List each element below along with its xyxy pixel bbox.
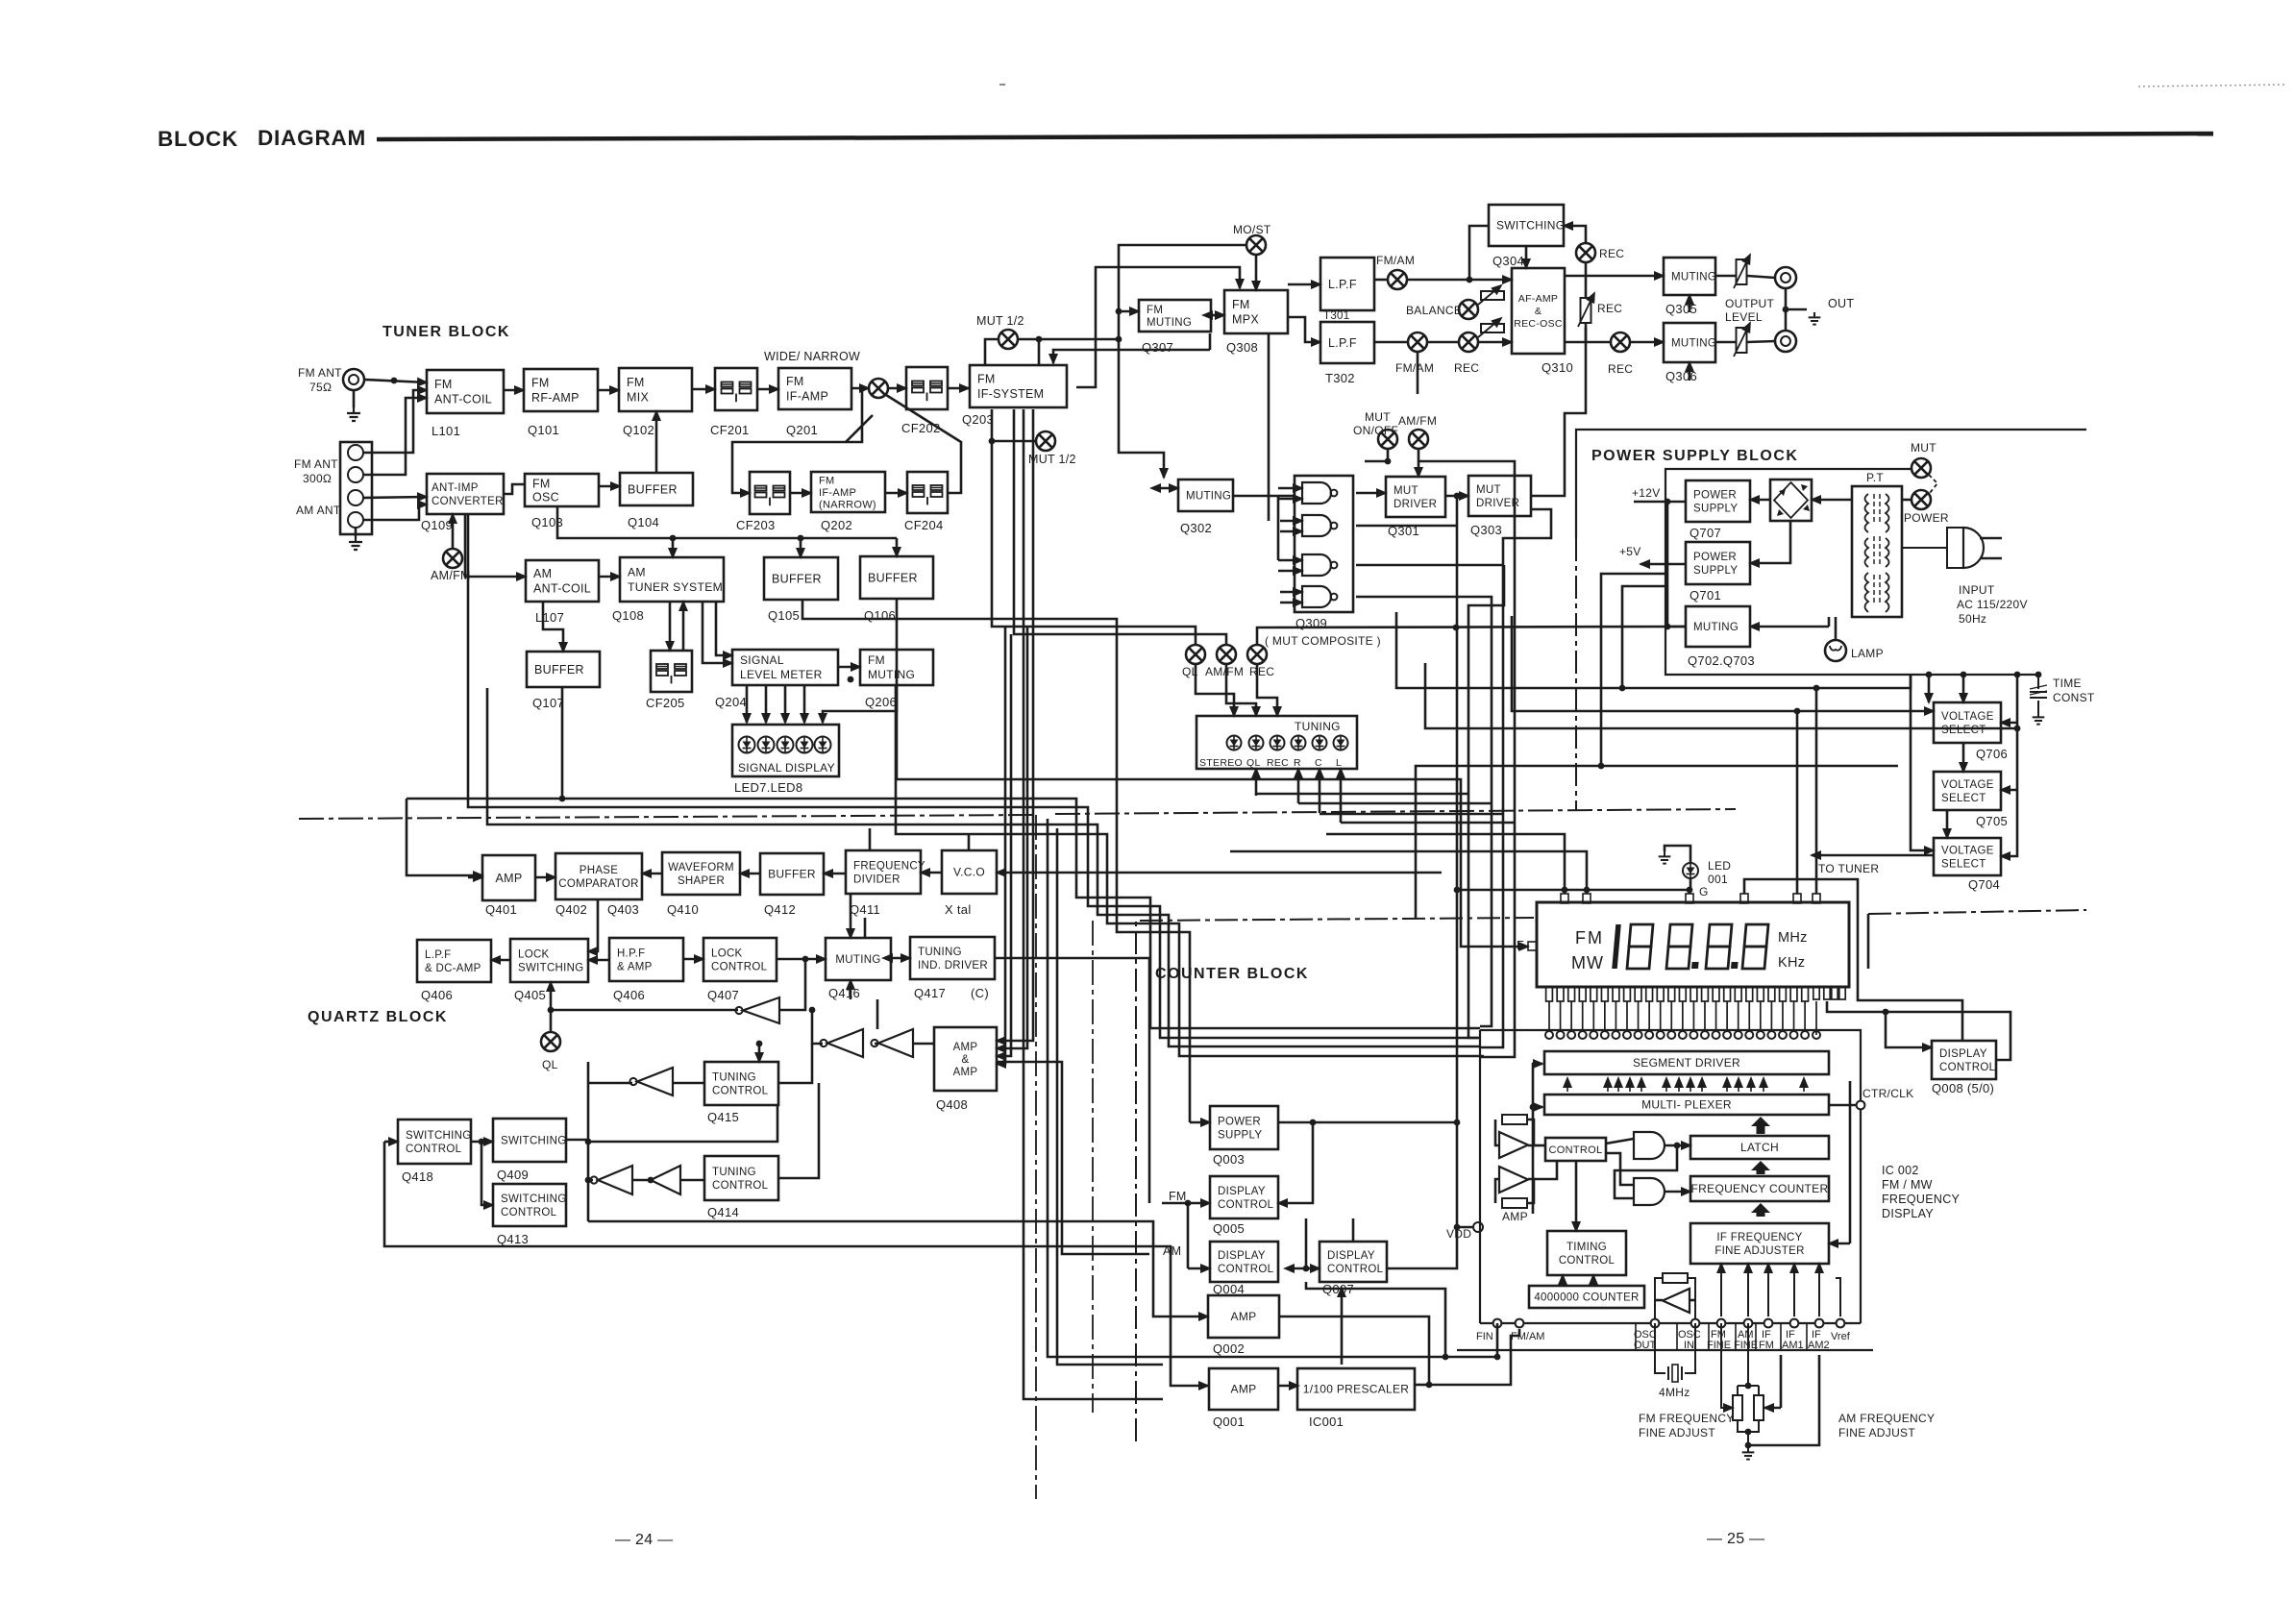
wire select left feed [1911, 675, 1934, 850]
wire power to Q008 rail [1867, 914, 1870, 969]
wire Q202 to CF204 [885, 492, 907, 495]
wire 300ohm a to L101 [363, 390, 427, 453]
mixer wide/narrow switch [869, 379, 888, 398]
bus LED b [1298, 802, 1492, 805]
svg-text:Q410: Q410 [667, 902, 699, 917]
IC002 bottom terminal FM/AM [1516, 1319, 1524, 1328]
node inv5 [648, 1177, 654, 1184]
svg-text:REC: REC [1597, 302, 1622, 315]
terminal cell divider 1778 [1708, 1323, 1710, 1350]
svg-text:T302: T302 [1325, 371, 1355, 385]
wire IC001 out [1415, 1384, 1429, 1387]
wire amp B loop b [1527, 1179, 1534, 1203]
node inv [809, 1007, 816, 1014]
lamp AM/FM mut [1409, 430, 1428, 449]
svg-text:— 25 —: — 25 — [1707, 1531, 1765, 1547]
chain line vertical divider b [1092, 921, 1094, 1413]
power supply block outer box [1576, 430, 2086, 538]
wire IF adjuster right feed [1829, 1243, 1850, 1245]
IC002 top pin 3 [1567, 1031, 1575, 1039]
svg-text:Q416: Q416 [828, 986, 860, 1000]
svg-text:TUNER BLOCK: TUNER BLOCK [382, 324, 510, 340]
svg-text:AM: AM [533, 567, 552, 580]
inverter quartz 2 [820, 1029, 863, 1057]
svg-text:1/100 PRESCALER: 1/100 PRESCALER [1303, 1383, 1410, 1396]
block PHASE COMPARATOR Q402 Q403 [555, 853, 642, 899]
capacitor TIME CONST [2030, 675, 2047, 712]
wire QL to tuning LED [1196, 664, 1234, 716]
node and out [1674, 1143, 1681, 1149]
node pot top [1745, 1383, 1752, 1390]
LED tuning 2 [1249, 736, 1264, 750]
wire CF202 to IF-SYSTEM [948, 387, 969, 390]
wire to Q416 top [850, 918, 852, 938]
svg-text:L101: L101 [432, 424, 460, 438]
svg-text:Q403: Q403 [607, 902, 639, 917]
block LPF DC-AMP Q406 [417, 940, 491, 982]
svg-text:SELECT: SELECT [1941, 725, 1986, 736]
ceramic filter CF203 [750, 472, 790, 514]
wire FM ANT to L101 [364, 380, 427, 382]
svg-text:QL: QL [542, 1058, 558, 1071]
wire Q306 to level pot R [1715, 341, 1736, 344]
svg-text:QL: QL [1246, 757, 1261, 769]
IC002 top pin 11 [1657, 1031, 1665, 1039]
buffer amp A [1499, 1132, 1528, 1158]
svg-text:FINE ADJUST: FINE ADJUST [1639, 1426, 1715, 1439]
svg-text:AMP: AMP [953, 1067, 978, 1078]
wire to Q307 [1119, 310, 1139, 313]
svg-text:CF202: CF202 [901, 421, 941, 435]
node mut12 [1036, 336, 1043, 343]
svg-text:& AMP: & AMP [617, 962, 653, 973]
node v2a [1454, 1120, 1461, 1126]
block FM MUTING Q307 [1139, 300, 1211, 332]
IC002 bottom terminal Vref [1837, 1319, 1845, 1328]
wire Q306 bottom feed [1689, 362, 1691, 381]
wire counter to timing a [1562, 1275, 1565, 1286]
wires display pins to IC002 [1549, 1001, 1805, 1031]
resistor osc buffer [1663, 1273, 1688, 1283]
block BUFFER Q105 [764, 557, 838, 600]
seven segment digits 188.8.8 [1615, 924, 1768, 969]
block BUFFER Q412 [760, 853, 824, 895]
wire display pin extra [1815, 1001, 1817, 1035]
thick arrow latch to mux [1751, 1117, 1770, 1134]
LED signal display 1 [739, 737, 755, 753]
wire level meter to LED 837 [803, 685, 806, 723]
wire REC lamp to SWITCHING [1564, 226, 1586, 243]
svg-text:Q305: Q305 [1665, 302, 1697, 316]
IC002 bottom terminal OSC IN [1691, 1319, 1700, 1328]
bus Q408 out [997, 1062, 1149, 1254]
svg-text:FREQUENCY COUNTER: FREQUENCY COUNTER [1691, 1182, 1829, 1195]
wire NAND2 input 553 [1280, 530, 1302, 533]
svg-text:Q106: Q106 [864, 608, 896, 623]
block SIGNAL LEVEL METER Q204 [732, 650, 838, 685]
svg-text:CONTROL: CONTROL [712, 1086, 769, 1097]
block FM IF-AMP Q201 [778, 368, 851, 409]
wire mut12 to IF top [1038, 339, 1041, 365]
svg-text:CONST: CONST [2053, 691, 2095, 704]
wire amp A loop b [1527, 1120, 1534, 1145]
wire CF203 to Q202 [790, 492, 811, 495]
IC002 bottom terminal OSC OUT [1651, 1319, 1660, 1328]
IC002 top pin 14 [1690, 1031, 1697, 1039]
wire pot arrow left [1727, 1407, 1733, 1410]
wire inverter1 out [551, 1009, 738, 1012]
bus P2 [468, 514, 1480, 1038]
block AMP Q001 [1209, 1368, 1278, 1410]
block MUTING Q306 [1664, 323, 1716, 362]
wire mut composite to volt select [1512, 616, 1934, 711]
wire v2b [1468, 565, 1504, 1038]
block MULTI-PLEXER [1544, 1095, 1829, 1115]
wire NAND2 out [1356, 525, 1457, 528]
IC002 top pin 1 [1545, 1031, 1553, 1039]
svg-text:CONTROL: CONTROL [1327, 1264, 1384, 1275]
lamp AM/FM mid [1217, 645, 1236, 664]
wire LED001 to G node [1690, 878, 1692, 890]
svg-text:Q401: Q401 [485, 902, 517, 917]
IC002 top pin 8 [1623, 1031, 1631, 1039]
wire VCO top stub [968, 834, 971, 850]
LED signal display 3 [777, 737, 794, 753]
wire to IF top b [1053, 350, 1210, 363]
svg-text:CONTROL: CONTROL [712, 1180, 769, 1192]
wire T302 to FM/AM lamp lower [1374, 341, 1408, 344]
svg-text:PHASE: PHASE [580, 865, 619, 876]
node Q003 out [1310, 1120, 1317, 1126]
AND gate lower [1634, 1178, 1665, 1205]
wire AM ANT ground [355, 528, 358, 536]
wire to MO/ST lamp [1119, 245, 1246, 339]
block FREQUENCY DIVIDER Q411 [846, 850, 925, 894]
svg-text:FM: FM [1169, 1190, 1187, 1203]
svg-text:C: C [1315, 757, 1322, 769]
wire var res down [1585, 323, 1588, 342]
svg-text:P.T: P.T [1866, 471, 1884, 484]
wire ANT-IMP to L107 [465, 514, 526, 577]
IC002 top pin 15 [1701, 1031, 1709, 1039]
wire display feed left a [1326, 834, 1565, 894]
node Q008 [1883, 1009, 1889, 1016]
node G line b [1584, 887, 1591, 894]
wire mut left [1365, 460, 1388, 463]
svg-text:DISPLAY: DISPLAY [1218, 1186, 1266, 1197]
svg-text:Q008 (5/0): Q008 (5/0) [1932, 1081, 1994, 1095]
wire Q416 top b [864, 918, 867, 938]
IC002 bottom terminal FM FINE [1717, 1319, 1726, 1328]
svg-text:TIMING: TIMING [1566, 1242, 1607, 1253]
block BUFFER Q104 [620, 473, 693, 505]
wire prescaler to FM/AM pin [1429, 1329, 1519, 1385]
terminal cell divider 1853 [1780, 1323, 1782, 1350]
node pot gnd [1745, 1442, 1752, 1449]
node feed a [1794, 708, 1801, 715]
bus Q415 to switching [588, 1105, 777, 1142]
node lock out [802, 956, 809, 963]
wire terminal 1791 to IF adjuster [1720, 1264, 1722, 1316]
svg-text:LED7.LED8: LED7.LED8 [734, 780, 802, 795]
signal display LED7 LED8 [732, 725, 839, 776]
svg-text:FINE ADJUSTER: FINE ADJUSTER [1714, 1245, 1804, 1257]
svg-text:LED: LED [1708, 859, 1731, 873]
wire +12V stub [1634, 501, 1667, 504]
wire select top feed a [1962, 675, 1965, 702]
svg-text:— 24 —: — 24 — [615, 1532, 674, 1548]
wire control to timing [1575, 1161, 1578, 1231]
lamp MUT power [1912, 458, 1931, 478]
osc buffer [1663, 1289, 1690, 1313]
block AM TUNER SYSTEM Q108 [620, 557, 724, 602]
wire +5V dist b [1622, 586, 1665, 688]
svg-text:SWITCHING: SWITCHING [518, 963, 584, 974]
wire CONTROL to AND a [1606, 1139, 1634, 1144]
lamp QL quartz [541, 1032, 560, 1051]
wire HPF to LOCK SW [588, 959, 609, 962]
svg-text:TUNING: TUNING [918, 947, 962, 958]
svg-text:4MHz: 4MHz [1659, 1386, 1690, 1399]
svg-text:FINE ADJUST: FINE ADJUST [1838, 1426, 1915, 1439]
svg-text:(C): (C) [971, 986, 989, 1000]
wire bus to tuning LED 1307 [1255, 769, 1258, 796]
node mut [1385, 458, 1392, 465]
wire pot arrow right [1764, 1407, 1781, 1410]
svg-text:L.P.F: L.P.F [1328, 278, 1357, 291]
frequency display module [1537, 902, 1849, 987]
svg-text:MW: MW [1571, 953, 1604, 972]
IC002 bottom terminal FIN [1493, 1319, 1502, 1328]
node VDD corner [1454, 1224, 1461, 1231]
svg-text:BLOCK: BLOCK [158, 127, 238, 151]
svg-text:SUPPLY: SUPPLY [1693, 504, 1738, 515]
terminal cell divider 1745 [1676, 1323, 1678, 1350]
block IF FREQUENCY FINE ADJUSTER [1690, 1223, 1829, 1264]
lamp MUT ON/OFF [1378, 430, 1397, 449]
node FIN join [1443, 1354, 1449, 1361]
node Q301 out [1454, 493, 1461, 500]
wire muting Q702 input [1750, 626, 1829, 628]
faint mid dotted mark [999, 84, 1005, 86]
svg-text:FREQUENCY: FREQUENCY [1882, 1193, 1961, 1206]
wire Q305 to level pot [1715, 275, 1736, 278]
block MUT DRIVER Q301 [1386, 477, 1445, 517]
svg-text:BUFFER: BUFFER [628, 482, 678, 496]
svg-text:Q204: Q204 [715, 695, 747, 709]
svg-text:FM ANT: FM ANT [298, 366, 342, 380]
lamp FM/AM upper [1388, 270, 1407, 289]
wire +5V out [1640, 563, 1686, 566]
wire inv2-inv3 [875, 1043, 878, 1046]
svg-text:SELECT: SELECT [1941, 793, 1986, 804]
svg-text:FM: FM [868, 653, 885, 667]
svg-text:FM: FM [532, 477, 551, 490]
svg-text:POWER: POWER [1904, 511, 1949, 525]
bus to AMPAMP d [997, 627, 1005, 1064]
IC002 top pin 21 [1767, 1031, 1775, 1039]
svg-text:SEGMENT DRIVER: SEGMENT DRIVER [1633, 1056, 1740, 1070]
variable resistor output level R [1734, 323, 1750, 357]
node rail Q105 [798, 535, 804, 542]
chain line right [1055, 809, 1736, 814]
wire 300ohm to ANT-IMP [363, 497, 427, 498]
wire to Q415 top [758, 1044, 761, 1062]
resistor amp B [1502, 1198, 1527, 1208]
wire AM/FM lamp to Q301 [1418, 449, 1420, 477]
wire NAND3 input 594 [1278, 570, 1302, 573]
wire Q003 out [1278, 1121, 1313, 1124]
wire mux to segment driver 1809 [1738, 1078, 1739, 1092]
wire Q301 to Q303 [1445, 495, 1468, 498]
svg-text:Q203: Q203 [962, 412, 994, 427]
IC002 top pin 7 [1612, 1031, 1619, 1039]
node rail Q108 [670, 535, 677, 542]
AC power plug [1902, 528, 2002, 568]
svg-text:FM: FM [627, 376, 645, 389]
wire AF-AMP to MUTING Q305 [1565, 275, 1664, 278]
block FM ANT-COIL L101 [427, 370, 504, 413]
wire rail to Q706 [2001, 722, 2017, 725]
bus P5 Q105 to Q003 [802, 600, 1190, 1122]
block DISPLAY CONTROL Q008 [1932, 1041, 1996, 1079]
wire level meter to LED 817 [784, 685, 787, 723]
crystal 4MHz [1655, 1323, 1695, 1382]
block AM ANT-COIL L107 [526, 560, 599, 602]
node time const [2014, 672, 2021, 678]
wire AND to FREQ COUNTER [1665, 1191, 1690, 1193]
node Q004 Q007 [1303, 1266, 1310, 1272]
svg-text:Q201: Q201 [786, 423, 818, 437]
block TIMING CONTROL [1547, 1231, 1626, 1275]
IC002 top pin 9 [1635, 1031, 1642, 1039]
wire mux to CTRCLK [1829, 1104, 1856, 1107]
svg-text:DIAGRAM: DIAGRAM [258, 126, 366, 150]
wire AM/FM to tuning LED [1226, 664, 1256, 716]
svg-text:Q701: Q701 [1690, 588, 1721, 603]
pilot lamp [1825, 640, 1846, 661]
wire Q304 to AF-AMP [1525, 246, 1528, 268]
wire NAND1 to Q301 [1356, 492, 1386, 495]
svg-text:H.P.F: H.P.F [617, 947, 645, 959]
wire G stub [1689, 890, 1691, 894]
wire to Q418 [384, 1141, 398, 1144]
svg-text:TUNING: TUNING [712, 1167, 756, 1178]
svg-text:MUT: MUT [1394, 485, 1418, 497]
bus P1 to AMP Q401 [407, 799, 482, 875]
wire FM-AM vertical [1187, 1203, 1190, 1268]
svg-text:Q302: Q302 [1180, 521, 1212, 535]
inverter quartz 6 [651, 1166, 680, 1194]
lamp REC top [1576, 243, 1595, 262]
node switch v1 [585, 1139, 592, 1145]
block AMP Q002 [1208, 1295, 1279, 1338]
NAND gate 1 [1302, 482, 1337, 504]
svg-text:Q704: Q704 [1968, 877, 2000, 892]
svg-text:REC: REC [1454, 361, 1479, 375]
wire terminal 1819 to IF adjuster [1747, 1264, 1749, 1316]
LED signal display 2 [758, 737, 775, 753]
svg-text:FM FREQUENCY: FM FREQUENCY [1639, 1412, 1735, 1425]
wire v2d [1480, 509, 1551, 1047]
block AF-AMP REC-OSC Q310 [1512, 268, 1565, 354]
ceramic filter CF201 [715, 368, 757, 410]
svg-text:Q413: Q413 [497, 1232, 529, 1246]
svg-text:Q303: Q303 [1470, 523, 1502, 537]
bus P4 [896, 685, 1484, 1056]
wire prescaler to Q007 [1341, 1288, 1344, 1365]
svg-text:AM ANT: AM ANT [296, 504, 341, 517]
wire Q418 to Q409 [471, 1141, 493, 1144]
wire Q305 bottom feed [1689, 295, 1691, 312]
LED tuning 4 [1292, 736, 1306, 750]
svg-text:001: 001 [1708, 873, 1728, 886]
wire PHASE COMP to LOCK SW [588, 899, 598, 951]
wire amp to control [1534, 1144, 1545, 1147]
wire inv2 out up [812, 1010, 823, 1044]
wire Q705 to Q704 [1946, 810, 1949, 838]
svg-text:POWER SUPPLY BLOCK: POWER SUPPLY BLOCK [1591, 448, 1798, 464]
block MUTING Q305 [1664, 258, 1716, 295]
wire REC lamp to var res [1585, 262, 1588, 298]
svg-text:75Ω: 75Ω [309, 381, 332, 394]
svg-text:STEREO: STEREO [1199, 757, 1243, 769]
block FM MUTING Q206 [860, 650, 933, 685]
svg-text:MUTING: MUTING [1186, 491, 1231, 503]
wire rail to Q108 top [672, 538, 675, 557]
svg-text:REC: REC [1599, 247, 1624, 260]
svg-text:OSC: OSC [532, 490, 559, 504]
wire jack common [1785, 288, 1788, 331]
wire bridge to Q707 [1750, 499, 1770, 502]
wire mux to segment driver 1673 [1607, 1078, 1609, 1092]
svg-text:Q405: Q405 [514, 988, 546, 1002]
wire BUFFER to WAVEFORM [740, 873, 760, 875]
svg-text:IF FREQUENCY: IF FREQUENCY [1716, 1232, 1802, 1243]
pot resistor right [1754, 1395, 1764, 1420]
IC002 top pin 19 [1745, 1031, 1753, 1039]
block LOCK CONTROL Q407 [703, 938, 777, 981]
wire AM fine adjust [1748, 1355, 1819, 1445]
svg-text:Q407: Q407 [707, 988, 739, 1002]
wire rail 797 [1416, 766, 1898, 918]
wire Q003 to VDD rail [1313, 1121, 1457, 1124]
svg-text:BUFFER: BUFFER [768, 868, 816, 881]
terminal CTR/CLK [1857, 1101, 1865, 1110]
wire VDD vertical [1456, 1122, 1459, 1227]
wire inv5 out [588, 1179, 593, 1182]
node Q307 feed [1116, 308, 1122, 315]
tuning LED display box [1196, 716, 1357, 769]
wire NAND3 input 583 [1278, 559, 1302, 562]
bus Q203 d [1024, 409, 1163, 1399]
chain line quartz top [299, 815, 1036, 819]
wire mux to segment driver 1708 [1640, 1078, 1642, 1092]
svg-text:50Hz: 50Hz [1959, 612, 1986, 626]
svg-text:MUTING: MUTING [1147, 317, 1192, 329]
thick arrow counter to latch [1751, 1161, 1770, 1174]
node meter out [848, 677, 854, 683]
svg-text:Q002: Q002 [1213, 1341, 1245, 1356]
wire osc loop b [1688, 1278, 1695, 1323]
lamp FM/AM lower [1408, 332, 1427, 352]
svg-text:AMP: AMP [1231, 1310, 1257, 1323]
IC002 top pin 2 [1557, 1031, 1565, 1039]
wire display feed from power a [1796, 711, 1799, 894]
svg-text:BUFFER: BUFFER [868, 571, 918, 584]
wire FIN drop [1496, 1323, 1499, 1357]
wire mux to segment driver 1835 [1763, 1078, 1764, 1092]
